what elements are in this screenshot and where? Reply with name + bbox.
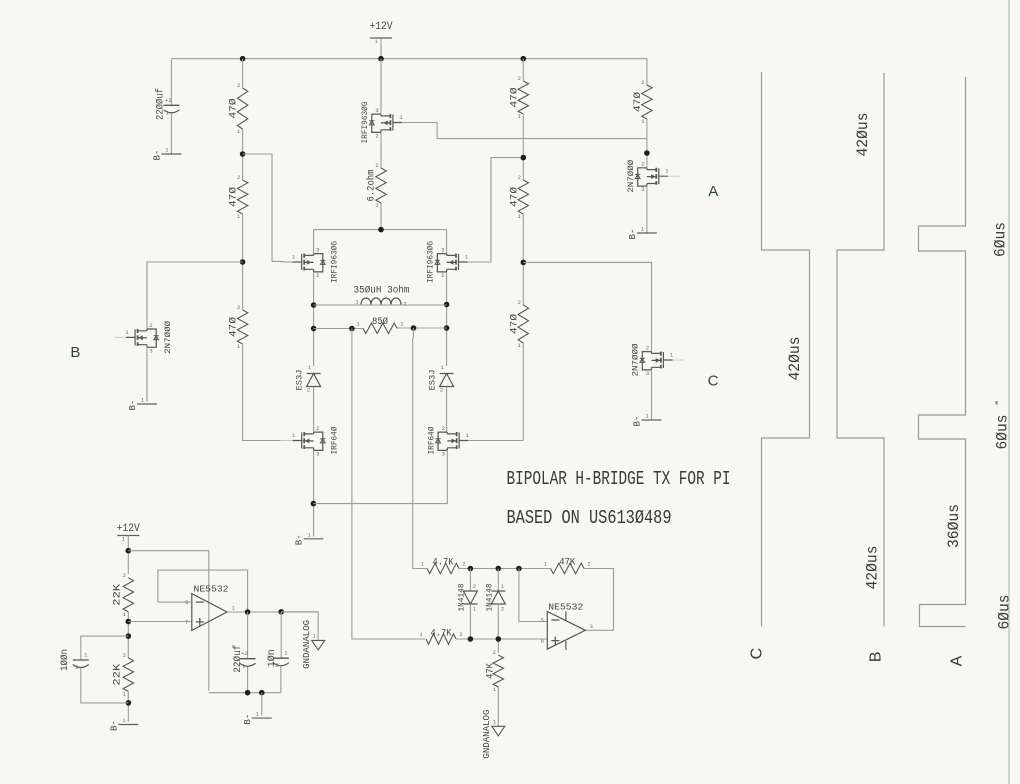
wire bottom common rail: [209, 692, 281, 694]
wire R4c to Q5 gate row: [522, 343, 524, 441]
svg-text:6: 6: [541, 638, 544, 645]
svg-text:2: 2: [149, 322, 152, 329]
junction D4 top: [496, 566, 502, 572]
svg-text:2: 2: [646, 345, 649, 352]
svg-text:42Øus: 42Øus: [855, 113, 872, 157]
wire Q5 gate to R5 column: [468, 440, 523, 442]
+12V power (op-amp): [117, 523, 140, 543]
resistor R3 470: [228, 304, 248, 350]
svg-text:C: C: [708, 372, 719, 389]
resistor R10 22K 22K: [113, 652, 134, 698]
wire +12 to op-amp U1 supply: [128, 551, 209, 691]
svg-text:2: 2: [237, 304, 240, 311]
junction C drive node: [521, 260, 527, 266]
svg-text:C: C: [749, 648, 766, 660]
svg-text:2: 2: [518, 75, 521, 82]
svg-text:2: 2: [275, 662, 278, 669]
wire R4b down: [522, 214, 524, 305]
wire Q5 source to common: [313, 451, 447, 504]
svg-text:B-: B-: [128, 400, 138, 411]
svg-text:GNDANALOG: GNDANALOG: [302, 620, 312, 669]
wire R9 to divider node: [127, 612, 129, 658]
resistor R2 470: [228, 174, 248, 220]
transistor Q4 IRF640 left: [281, 425, 340, 458]
wire rail to R1: [242, 59, 244, 88]
svg-text:2: 2: [123, 652, 126, 659]
wire Q4 source down to common: [313, 451, 315, 536]
junction RX right tap: [411, 325, 417, 331]
resistor R14 47K 47K: [486, 649, 504, 693]
svg-text:+12V: +12V: [370, 21, 393, 33]
ground B- (C): [633, 413, 662, 427]
junction D4/R14 bottom: [496, 636, 502, 642]
wire rail to Q1 source: [380, 59, 382, 114]
wire R14 to GNDANALOG: [497, 687, 499, 726]
svg-text:42Øus: 42Øus: [865, 546, 882, 590]
waveform trace C: [762, 72, 810, 627]
svg-text:2: 2: [307, 387, 310, 394]
svg-text:2: 2: [462, 561, 465, 568]
junction D3 top: [468, 566, 474, 572]
svg-text:47Ø: 47Ø: [228, 187, 240, 207]
wire RX left vertical: [352, 329, 425, 640]
resistor R12 4.7K 4.7K: [419, 629, 462, 645]
wire D1 to IRF640 left: [313, 387, 315, 432]
wire 220uf drop: [247, 612, 249, 659]
svg-text:3: 3: [375, 107, 378, 114]
wire D3 drop: [469, 569, 471, 592]
wire gate riser to Q2: [272, 260, 284, 262]
svg-text:2: 2: [473, 583, 476, 590]
transistor Q7 2N7000 C: [631, 344, 685, 378]
wire Q-A source to ground: [646, 187, 648, 233]
svg-text:+2: +2: [165, 97, 172, 104]
svg-text:NE5532: NE5532: [194, 583, 229, 594]
capacitor 2200uf: [155, 88, 180, 120]
resistor R6 470: [632, 79, 652, 125]
svg-text:6Øus: 6Øus: [997, 595, 1014, 630]
svg-text:3: 3: [646, 370, 649, 377]
op-amp U2 NE5532: [541, 601, 593, 649]
wire lower row to U2 +in: [456, 638, 547, 640]
wire mid rail: [314, 229, 447, 231]
svg-text:2: 2: [518, 299, 521, 306]
svg-text:BASED ON US613Ø489: BASED ON US613Ø489: [507, 508, 672, 530]
svg-text:IRF64Ø: IRF64Ø: [426, 427, 436, 455]
wire D4 drop: [497, 569, 499, 592]
junction rail/Q-top: [378, 56, 384, 62]
wire 100n branch: [81, 636, 129, 660]
junction L1 right: [444, 302, 450, 308]
wire R13 to output: [584, 569, 614, 631]
junction 100n tap: [126, 633, 132, 639]
svg-text:2: 2: [375, 162, 378, 169]
svg-text:B-: B-: [153, 150, 163, 161]
scan edge line: [1008, 0, 1010, 784]
svg-text:2: 2: [316, 272, 319, 279]
diode D3 1N4148: [457, 584, 478, 612]
junction bottom left: [126, 700, 132, 706]
wire R10 to ground node: [127, 691, 129, 722]
svg-text:2: 2: [316, 425, 319, 432]
wire Q3 gate to riser: [468, 158, 524, 262]
wire R8 row left: [314, 328, 363, 330]
wire GNDANALOG branch: [281, 612, 318, 641]
svg-text:35ØuH 3ohm: 35ØuH 3ohm: [354, 285, 410, 297]
junction RX left tap: [349, 326, 355, 332]
svg-text:2: 2: [501, 606, 504, 613]
svg-text:2: 2: [587, 561, 590, 568]
diode D2 ES3J right: [428, 370, 454, 391]
wire Q2 gate lead: [284, 261, 293, 263]
junction node B drive: [240, 259, 246, 265]
capacitor C2 100n 100n: [59, 649, 89, 671]
wire upper row: [459, 568, 551, 570]
resistor R7 6.2ohm 6.2ohm: [366, 162, 387, 209]
svg-text:1N4148: 1N4148: [484, 584, 494, 612]
svg-text:+2: +2: [241, 650, 248, 657]
wire rail right drop to R6: [646, 59, 648, 85]
wire divider to U1 +input: [128, 621, 192, 623]
svg-text:6Øus: 6Øus: [995, 415, 1012, 450]
svg-text:2: 2: [493, 649, 496, 656]
junction 220uf top: [245, 609, 251, 615]
resistor R11 4.7K 4.7K: [420, 558, 465, 574]
svg-text:5: 5: [541, 617, 544, 624]
wire RX right vertical: [413, 328, 427, 569]
svg-text:+12V: +12V: [117, 523, 140, 535]
svg-text:2: 2: [75, 664, 78, 671]
svg-text:B-: B-: [243, 714, 253, 725]
transistor Q8 2N7000 B: [114, 321, 173, 355]
wire R4a down: [522, 114, 524, 180]
transistor Q3 IRFI9630G right: [426, 241, 480, 283]
transistor Q1 IRFI9630G top: [360, 102, 414, 144]
wire U1 output rail: [227, 611, 318, 613]
ground B- (C1): [153, 147, 182, 161]
svg-text:A: A: [708, 183, 718, 200]
svg-text:IRFI963ØG: IRFI963ØG: [360, 102, 370, 144]
svg-text:B-: B-: [628, 229, 638, 240]
svg-text:3: 3: [641, 186, 644, 193]
wire R6 down to Q-A: [646, 119, 648, 167]
waveform trace A: [919, 77, 966, 627]
svg-text:IRFI963ØG: IRFI963ØG: [330, 241, 340, 283]
svg-text:2: 2: [237, 82, 240, 89]
resistor R4a 470: [508, 75, 528, 120]
wire rail left drop to C1: [170, 59, 172, 106]
svg-text:7: 7: [185, 619, 188, 626]
capacitor C3 220uf 220uf: [232, 645, 255, 673]
svg-text:47K: 47K: [559, 558, 575, 569]
svg-text:22K: 22K: [113, 664, 124, 686]
wire L1 row: [314, 304, 447, 306]
junction R8 right: [444, 325, 450, 331]
svg-text:A: A: [948, 655, 965, 666]
svg-text:47Ø: 47Ø: [508, 187, 520, 207]
inductor L1 350uH: [354, 285, 410, 308]
junction divider mid: [126, 619, 132, 625]
svg-text:4.7K: 4.7K: [433, 558, 454, 569]
wire top rail: [171, 58, 647, 60]
wire 220uf bottom: [247, 667, 249, 693]
resistor R8 850 850: [356, 316, 403, 333]
wire U1 feedback loop: [158, 570, 248, 612]
wire +12V opamp stem: [127, 536, 129, 575]
transistor Q2 IRFI9630G left: [281, 241, 340, 283]
resistor R4c 470: [508, 299, 528, 349]
svg-text:47Ø: 47Ø: [228, 317, 240, 337]
svg-text:ES3J: ES3J: [295, 370, 305, 391]
svg-text:2: 2: [237, 174, 240, 181]
resistor R1 470: [228, 82, 248, 135]
svg-text:BIPOLAR H-BRIDGE TX FOR PI: BIPOLAR H-BRIDGE TX FOR PI: [507, 469, 731, 491]
junction rail/R1: [240, 56, 246, 62]
wire Q-B source to ground: [146, 348, 148, 402]
wire Q1 gate to A-row: [402, 123, 647, 139]
svg-text:47Ø: 47Ø: [508, 88, 520, 108]
wire Q-C source to ground: [651, 371, 653, 420]
ground GNDANALOG (U1): [302, 620, 325, 669]
svg-text:47Ø: 47Ø: [632, 92, 644, 112]
wire mid rail to Q2: [313, 230, 315, 254]
svg-text:85Ø: 85Ø: [372, 316, 388, 328]
svg-text:2N7ØØØ: 2N7ØØØ: [631, 344, 641, 377]
svg-text:3: 3: [442, 451, 445, 458]
svg-text:IRF64Ø: IRF64Ø: [330, 427, 340, 455]
svg-text:2: 2: [518, 174, 521, 181]
junction mid rail: [378, 227, 384, 233]
svg-text:2N7ØØØ: 2N7ØØØ: [626, 160, 636, 193]
svg-text:ES3J: ES3J: [428, 370, 438, 391]
op-amp U1 NE5532: [185, 583, 235, 630]
svg-text:3: 3: [441, 247, 444, 254]
svg-text:B: B: [867, 651, 884, 662]
resistor R13 47K 47K: [544, 558, 591, 574]
svg-text:GNDANALOG: GNDANALOG: [482, 710, 492, 759]
svg-text:IRFI963ØG: IRFI963ØG: [426, 241, 436, 283]
diode D4 1N4148: [484, 584, 505, 612]
wire R7 to mid rail: [380, 203, 382, 230]
svg-text:2: 2: [459, 631, 462, 638]
svg-text:3: 3: [590, 623, 593, 630]
wire -in riser: [519, 569, 547, 622]
svg-text:3: 3: [316, 451, 319, 458]
svg-text:1N4148: 1N4148: [457, 584, 467, 612]
junction bridge ground: [311, 501, 317, 507]
svg-text:6Øus: 6Øus: [993, 222, 1010, 257]
wire Q3 drain down: [446, 273, 448, 366]
ground B- (op-amp): [243, 711, 272, 725]
svg-text:NE5532: NE5532: [548, 601, 583, 612]
svg-text:42Øus: 42Øus: [787, 337, 804, 381]
junction node R1/R2/gate-top-left: [240, 151, 246, 157]
ground B- (bridge): [295, 531, 324, 545]
junction Q3 gate node: [521, 155, 527, 161]
junction U2 -in tap: [516, 566, 522, 572]
op-amp U2 power ticks: [565, 612, 567, 650]
wire 10n drop: [280, 612, 282, 658]
junction 220uf gnd: [245, 690, 251, 696]
junction 10n top: [278, 609, 284, 615]
wire C drive to Q-C: [523, 262, 651, 351]
svg-text:2: 2: [123, 572, 126, 579]
svg-text:B-: B-: [110, 720, 120, 731]
wire D3 bottom: [469, 604, 471, 639]
wire +12V stem: [380, 38, 382, 59]
wire 100n bottom: [81, 668, 129, 703]
svg-text:2: 2: [641, 79, 644, 86]
capacitor C4 10n 10n: [266, 649, 289, 669]
svg-text:6.2ohm: 6.2ohm: [366, 170, 378, 202]
svg-text:36Øus: 36Øus: [946, 504, 963, 548]
ground B- (A): [628, 226, 657, 240]
svg-text:47K: 47K: [486, 663, 497, 679]
svg-text:22K: 22K: [113, 584, 124, 606]
svg-text:3: 3: [316, 247, 319, 254]
ground B- (B): [128, 397, 157, 411]
transistor Q5 IRF640 right: [426, 425, 480, 458]
svg-text:B-: B-: [633, 416, 643, 427]
junction R8 left: [311, 326, 317, 332]
wire C1 to ground: [170, 114, 172, 155]
wire Q2 drain down: [313, 273, 315, 366]
junction +12 feed: [126, 548, 132, 554]
junction A node: [644, 150, 650, 156]
wire to B- (op-amp): [261, 693, 263, 716]
scan speck: [996, 401, 998, 405]
svg-text:2: 2: [441, 272, 444, 279]
wire node B to Q-B drain: [147, 262, 243, 330]
wire R1 to node: [242, 129, 244, 180]
wire D2 to IRF640 right: [446, 387, 448, 432]
svg-text:2: 2: [442, 425, 445, 432]
junction D3 bottom: [468, 636, 474, 642]
svg-text:2: 2: [403, 301, 406, 308]
wire node to IRF9630G top gate riser: [243, 154, 272, 261]
transistor Q6 2N7000 A: [626, 160, 680, 194]
svg-text:B: B: [70, 344, 80, 361]
svg-text:47Ø: 47Ø: [228, 99, 240, 119]
resistor R4b 470: [508, 174, 528, 220]
svg-text:2: 2: [641, 161, 644, 168]
svg-text:4.7K: 4.7K: [431, 629, 452, 640]
wire R2 to node B: [242, 214, 244, 310]
svg-text:2: 2: [400, 320, 403, 327]
wire Q1 drain to R7: [380, 133, 382, 168]
wire D4 bottom: [497, 604, 499, 653]
+12V power: [370, 21, 393, 45]
junction B- branch: [259, 690, 265, 696]
svg-text:47Ø: 47Ø: [508, 314, 520, 334]
wire R8 row right: [397, 327, 447, 329]
svg-text:2N7ØØØ: 2N7ØØØ: [163, 321, 173, 354]
svg-text:2: 2: [375, 133, 378, 140]
svg-text:1ØØn: 1ØØn: [59, 649, 71, 671]
ground B- (divider): [110, 717, 139, 731]
resistor R9 22K 22K: [113, 572, 134, 618]
wire R3 to IRF640-left gate: [243, 344, 305, 441]
svg-text:2: 2: [440, 387, 443, 394]
wire mid rail to Q3: [446, 230, 448, 254]
svg-text:B-: B-: [295, 534, 305, 545]
junction rail/R4: [521, 56, 527, 62]
wire 10n bottom: [280, 667, 282, 693]
junction L1 left: [311, 302, 317, 308]
svg-text:3: 3: [149, 347, 152, 354]
wire rail to R4a: [522, 59, 524, 81]
waveform trace B: [837, 73, 884, 627]
ground GNDANALOG (R14): [482, 710, 505, 759]
diode D1 ES3J left: [295, 370, 321, 391]
